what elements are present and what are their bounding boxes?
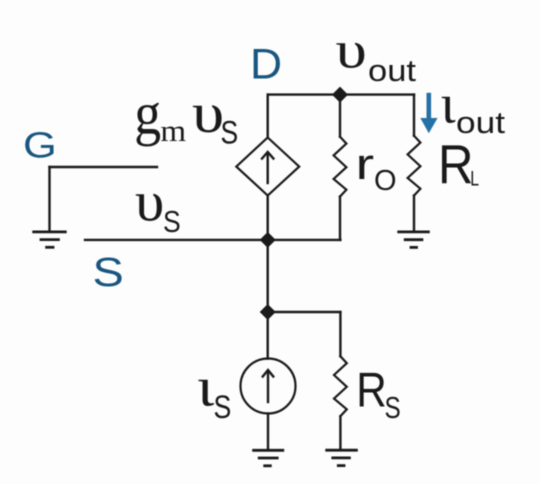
wire circle bottom stub: [267, 414, 269, 450]
label vS on source wire: [135, 170, 181, 239]
wire top rail (drain net): [268, 93, 414, 95]
wire rO bottom: [339, 197, 341, 240]
ground (RL): [399, 232, 429, 248]
label RL: [438, 134, 479, 195]
resistor rO zigzag: [334, 137, 347, 197]
junction node at vout: [333, 87, 348, 102]
wire RL top stub: [413, 95, 415, 136]
svg-text:υ: υ: [135, 170, 164, 233]
svg-text:υ: υ: [192, 82, 224, 145]
svg-text:R: R: [438, 134, 474, 195]
ground (RS): [327, 450, 357, 465]
svg-text:S: S: [214, 389, 232, 425]
wire RS vertical top: [339, 312, 341, 356]
wire RL bottom: [413, 196, 415, 231]
svg-text:O: O: [374, 165, 397, 197]
wire RS horizontal: [268, 311, 341, 313]
svg-text:m: m: [160, 113, 186, 148]
svg-text:out: out: [368, 53, 416, 88]
svg-text:G: G: [23, 125, 57, 166]
svg-text:g: g: [134, 80, 161, 146]
wire main vertical (diamond bottom to circle top): [267, 196, 269, 359]
svg-text:S: S: [221, 115, 239, 151]
svg-text:D: D: [250, 40, 282, 88]
label iout: [441, 74, 506, 141]
wire RS bottom: [339, 416, 341, 449]
resistor RL zigzag: [408, 136, 421, 196]
label vout: [336, 22, 417, 88]
independent current source iS (circle): [241, 359, 296, 414]
dependent current source U1 (diamond): [236, 138, 299, 196]
svg-text:ι: ι: [197, 356, 214, 418]
ground (gate): [34, 232, 66, 247]
label gm vS (controlled-source value): [134, 80, 238, 150]
current arrow iout (blue): [420, 93, 437, 133]
label RS: [356, 363, 401, 425]
junction node at source wire: [260, 233, 275, 248]
wire rO top stub: [339, 95, 341, 137]
resistor RS zigzag: [334, 356, 347, 416]
svg-text:S: S: [385, 390, 401, 425]
svg-text:S: S: [93, 249, 124, 295]
junction node at RS tap: [260, 305, 275, 320]
label rO: [356, 140, 397, 197]
arrow inside dependent source: [262, 152, 273, 183]
svg-text:υ: υ: [336, 22, 367, 80]
arrow inside current source: [263, 370, 274, 402]
wire gate horizontal stub: [50, 166, 158, 168]
wire source horizontal (node S net): [85, 239, 340, 241]
ground (iS): [254, 450, 283, 466]
svg-text:ι: ι: [441, 74, 456, 136]
svg-text:L: L: [470, 167, 479, 190]
wire diamond top stub: [267, 95, 269, 138]
svg-text:S: S: [163, 205, 181, 239]
label iS: [197, 356, 231, 424]
svg-text:out: out: [456, 105, 505, 140]
wire gate vertical: [48, 167, 50, 231]
svg-text:R: R: [356, 363, 387, 418]
svg-text:r: r: [356, 140, 375, 189]
